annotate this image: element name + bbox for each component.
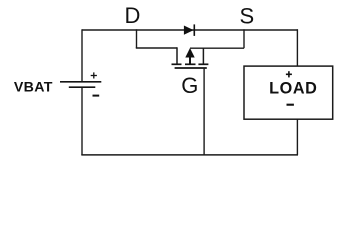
wire top rail from VBAT+ to S <box>82 29 298 31</box>
wire bottom rail <box>81 154 298 156</box>
battery VBAT negative plate <box>69 86 96 88</box>
load box outline <box>244 66 333 119</box>
wire source drop from top rail <box>243 29 245 48</box>
wire drain horizontal to MOSFET <box>136 47 177 49</box>
wire left vertical above battery <box>81 29 83 81</box>
svg-text:G: G <box>181 73 198 98</box>
wire right vertical from top rail to LOAD <box>296 29 298 66</box>
transistor Q1 body arrow shaft <box>189 56 191 64</box>
transistor Q1 source contact bar <box>198 63 208 65</box>
battery minus sign <box>93 95 100 97</box>
wire right vertical from LOAD to bottom rail <box>296 119 298 155</box>
transistor Q1 body contact bar <box>185 63 196 65</box>
svg-text:D: D <box>125 3 141 28</box>
wire gate lead down to bottom rail <box>203 68 205 155</box>
svg-text:LOAD: LOAD <box>269 80 317 98</box>
diode cathode bar <box>193 24 195 36</box>
wire drain drop from top rail <box>136 29 138 48</box>
load plus sign <box>286 71 292 77</box>
battery VBAT positive plate <box>60 81 101 83</box>
transistor Q1 gate plate <box>175 67 207 69</box>
load minus sign <box>287 104 294 106</box>
svg-text:S: S <box>239 3 254 28</box>
wire left vertical below battery <box>81 88 83 155</box>
wire source horizontal from arrow to source drop <box>190 47 244 49</box>
battery plus sign <box>91 72 97 78</box>
svg-text:VBAT: VBAT <box>14 80 53 96</box>
transistor Q1 body arrow head <box>185 48 194 58</box>
transistor Q1 drain contact bar <box>172 63 182 65</box>
diode anode-cathode triangle <box>184 26 194 35</box>
transistor Q1 drain lead <box>176 47 178 63</box>
transistor Q1 source lead <box>202 48 204 64</box>
